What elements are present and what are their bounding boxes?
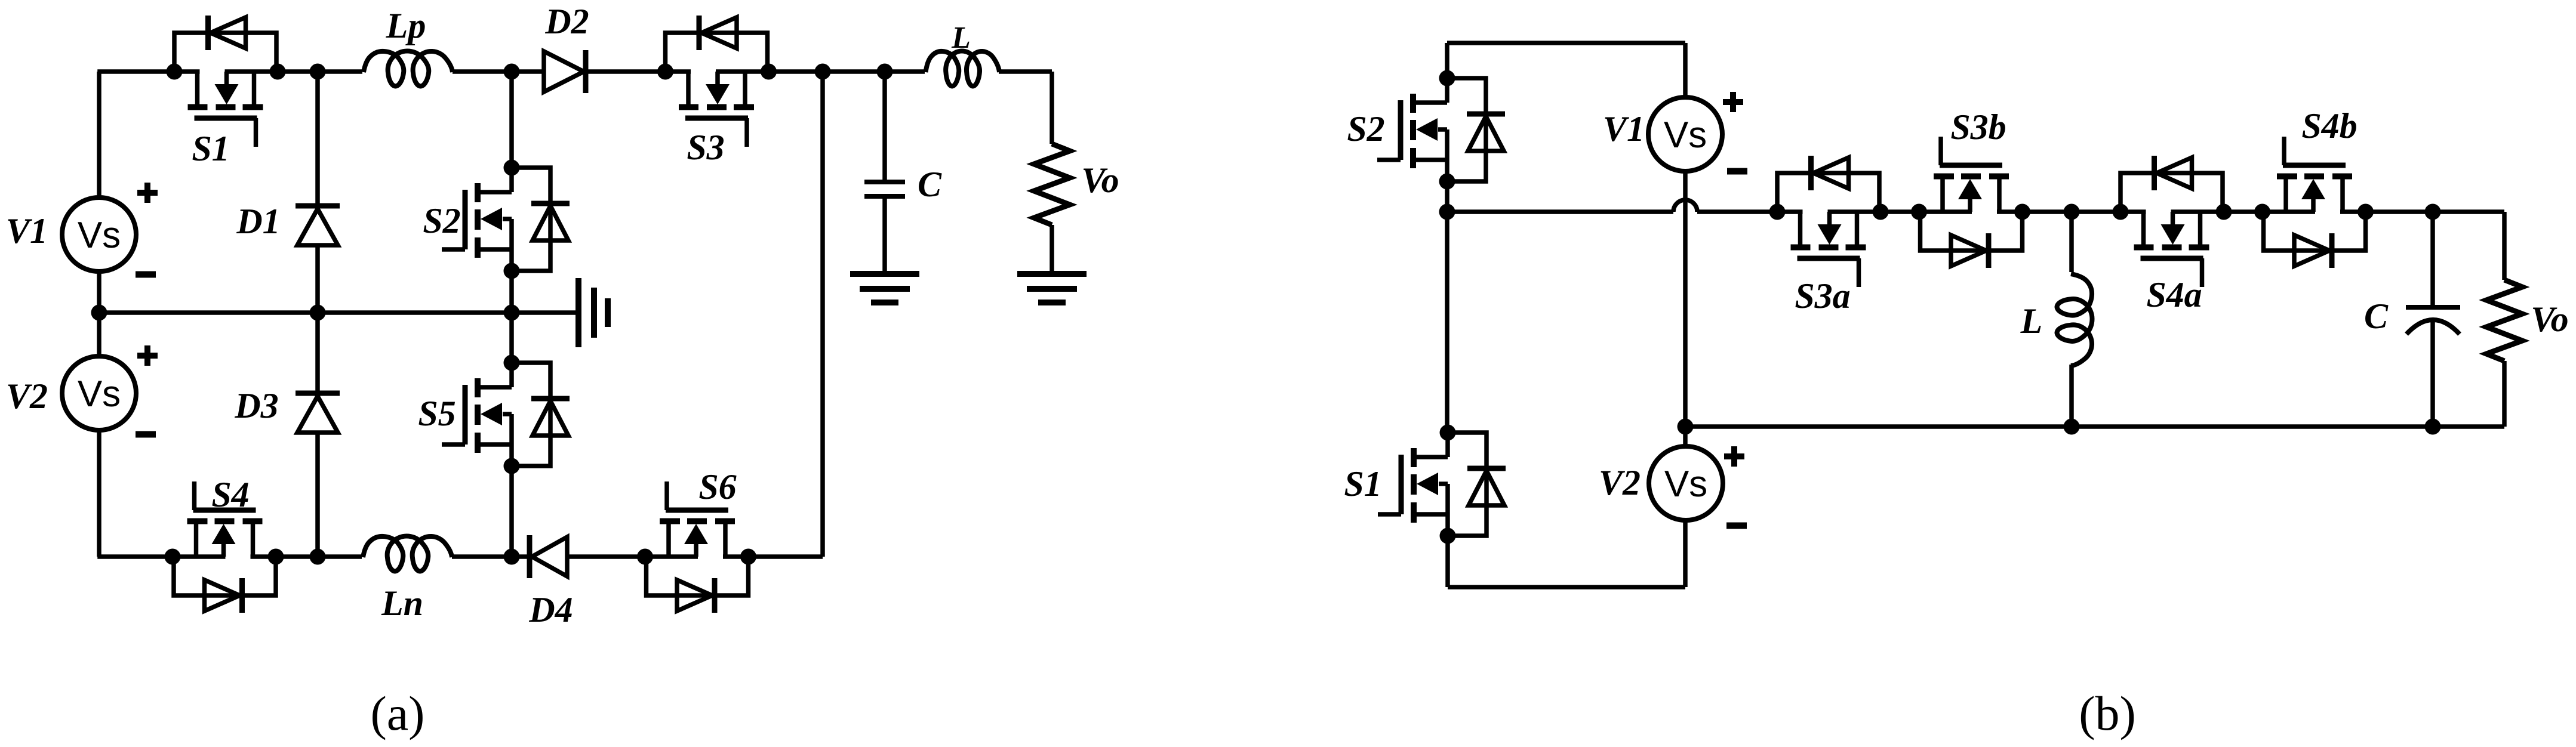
wire L to lower rail	[2069, 365, 2074, 427]
wire S1 to bottom corner	[1445, 536, 1450, 587]
svg-text:S5: S5	[418, 394, 456, 433]
wire S3 to L	[768, 69, 925, 74]
inductor Lp	[364, 51, 453, 87]
wire C to lower rail	[2430, 320, 2435, 427]
wire V1 to top rail	[97, 72, 101, 197]
inductor L (b)	[2057, 274, 2092, 366]
V2 minus sign	[136, 434, 156, 435]
wire V1 to top rail	[1683, 43, 1688, 98]
wire trunk junction to S1	[1445, 212, 1449, 433]
svg-text:L: L	[2020, 301, 2043, 341]
svg-text:S3b: S3b	[1950, 107, 2006, 147]
wire top rail from source V1 to S1	[97, 69, 174, 74]
wire top rail to D1	[315, 72, 320, 210]
wire D2 to S3	[586, 69, 666, 74]
node (b) mid rail / L branch	[2064, 204, 2080, 220]
V1 plus sign	[137, 183, 158, 203]
svg-text:S2: S2	[1347, 109, 1384, 149]
V2 minus sign (b)	[1726, 525, 1747, 526]
resistor Vo	[1034, 144, 1070, 225]
svg-text:D4: D4	[528, 590, 573, 629]
svg-text:S2: S2	[423, 201, 460, 240]
node mid rail / S2-S5	[504, 305, 520, 321]
source V2 circle	[62, 356, 136, 430]
V2 plus sign (b)	[1724, 446, 1744, 467]
svg-text:S6: S6	[698, 467, 736, 507]
svg-text:Vs: Vs	[1664, 115, 1707, 156]
node (b) lower rail / C	[2425, 419, 2441, 435]
wire bottom rail from V2 to S4	[97, 554, 174, 559]
node (b) lower rail / L	[2064, 419, 2080, 435]
wire mid rail to D3	[315, 313, 320, 397]
ground below Vo	[1017, 274, 1087, 302]
svg-text:S4: S4	[211, 475, 249, 514]
node (b) V2 / lower rail	[1678, 419, 1694, 435]
diode D4	[530, 535, 567, 578]
svg-text:C: C	[918, 165, 942, 204]
transistor S2 (b)	[1377, 70, 1505, 190]
wire V1 to mid rail junction	[97, 271, 101, 356]
svg-text:L: L	[951, 21, 971, 55]
wire Lp to D2	[453, 69, 545, 74]
transistor S3a	[1769, 156, 1889, 287]
node bottom rail / D3 branch	[310, 549, 326, 565]
wire (b) mid from junction to hop	[1447, 209, 1673, 214]
inductor Ln	[363, 536, 452, 572]
inductor L	[926, 51, 1000, 87]
transistor S1	[167, 16, 286, 147]
wire mid rail to L	[2069, 212, 2074, 272]
svg-text:S1: S1	[192, 129, 229, 168]
wire D1 to mid rail	[315, 245, 320, 313]
wire (b) lower rail	[1685, 424, 2504, 429]
wire V2 to lower rail junction	[1683, 427, 1688, 447]
diode D1	[296, 206, 340, 245]
svg-text:Vs: Vs	[1664, 464, 1707, 505]
transistor S1 (b)	[1378, 425, 1506, 544]
svg-text:S1: S1	[1344, 464, 1381, 504]
V2 plus sign	[137, 345, 158, 366]
node mid rail / D1-D3	[310, 305, 326, 321]
wire V2 to bottom rail	[97, 430, 101, 557]
wire S2 to mid junction	[1445, 181, 1449, 212]
ground mid rail	[578, 278, 608, 347]
svg-text:(b): (b)	[2079, 686, 2136, 740]
transistor S3	[657, 16, 777, 147]
wire Vo to lower rail (b)	[2502, 361, 2507, 427]
transistor S4b	[2254, 137, 2374, 268]
wire top rail to capacitor C	[882, 72, 887, 182]
source V1 circle (b)	[1648, 97, 1722, 171]
source V1 circle	[62, 197, 136, 271]
svg-text:V1: V1	[1603, 109, 1645, 149]
diode D3	[296, 393, 340, 433]
capacitor C (b)	[2406, 307, 2460, 334]
wire S1 to Lp	[278, 69, 362, 74]
wire mid rail corner to Vo (b)	[2502, 212, 2507, 280]
svg-text:S3: S3	[687, 128, 724, 167]
svg-text:Vo: Vo	[2531, 300, 2568, 339]
wire Ln to D4	[452, 554, 532, 559]
wire mid rail to S5	[509, 313, 514, 363]
svg-text:S3a: S3a	[1795, 276, 1850, 316]
svg-text:D3: D3	[234, 386, 278, 425]
wire (b) top left drop	[1445, 43, 1449, 78]
svg-text:V1: V1	[6, 211, 48, 251]
transistor S5	[442, 355, 570, 474]
V1 plus sign (b)	[1723, 92, 1743, 112]
wire L to output corner	[999, 69, 1052, 74]
diode D2	[544, 50, 586, 93]
wire Vo to ground	[1050, 225, 1054, 274]
node top rail / D1 branch	[310, 64, 326, 80]
wire return vertical	[820, 72, 825, 557]
node top rail / C branch	[877, 64, 893, 80]
wire capacitor C to ground	[882, 196, 887, 274]
wire D3 to bottom rail	[315, 433, 320, 557]
svg-text:(a): (a)	[370, 686, 424, 740]
svg-text:V2: V2	[1599, 463, 1641, 502]
wire hop to S3a	[1697, 209, 1778, 214]
wire S2 to mid rail	[509, 271, 514, 313]
wire S4 to Ln	[276, 554, 362, 559]
svg-text:Ln: Ln	[381, 584, 423, 623]
wire S4b to output corner	[2365, 209, 2504, 214]
svg-text:Lp: Lp	[386, 6, 426, 45]
wire top rail corner down to Vo	[1050, 72, 1054, 144]
svg-text:S4b: S4b	[2301, 106, 2357, 146]
ground below C	[850, 274, 919, 302]
svg-text:V2: V2	[6, 376, 48, 416]
transistor S4	[165, 481, 284, 613]
wire (b) bottom left rail	[1448, 585, 1685, 589]
transistor S4a	[2113, 156, 2232, 287]
node (b) S2/S1/mid-wire junction	[1439, 204, 1455, 220]
wire S5 to bottom rail	[509, 466, 514, 557]
wire bottom corner to V2	[1683, 520, 1688, 587]
wire S3b to S4a	[2021, 209, 2121, 214]
wire hop over V1-V2 vertical	[1673, 200, 1697, 212]
wire mid rail	[99, 310, 578, 315]
wire S3a to S3b	[1880, 209, 1921, 214]
wire mid rail to C (b)	[2430, 212, 2435, 307]
wire V2-V1 vertical	[1683, 171, 1688, 427]
svg-text:Vs: Vs	[78, 373, 121, 415]
node top rail / S2 branch	[504, 64, 520, 80]
capacitor C	[864, 182, 905, 196]
svg-text:Vo: Vo	[1081, 160, 1119, 200]
wire top rail to S2	[509, 72, 514, 168]
wire S4a to S4b	[2223, 209, 2263, 214]
transistor S2	[442, 160, 570, 279]
svg-text:D2: D2	[544, 2, 589, 41]
source V2 circle (b)	[1649, 446, 1723, 520]
node bottom rail / S5 branch	[504, 549, 520, 565]
wire (b) top rail	[1447, 41, 1685, 45]
node top rail / return branch	[815, 64, 831, 80]
transistor S3b	[1911, 137, 2030, 268]
V1 minus sign	[136, 274, 156, 275]
wire D4 to S6	[567, 554, 645, 559]
resistor Vo (b)	[2486, 280, 2522, 361]
svg-text:Vs: Vs	[78, 215, 121, 256]
svg-text:S4a: S4a	[2146, 275, 2202, 314]
node mid rail / sources	[91, 305, 107, 321]
svg-text:C: C	[2364, 297, 2389, 336]
wire S6 to return corner	[749, 554, 823, 559]
svg-text:D1: D1	[236, 202, 280, 241]
node (b) mid rail / C branch	[2425, 204, 2441, 220]
V1 minus sign (b)	[1727, 171, 1747, 172]
transistor S6	[637, 481, 756, 613]
